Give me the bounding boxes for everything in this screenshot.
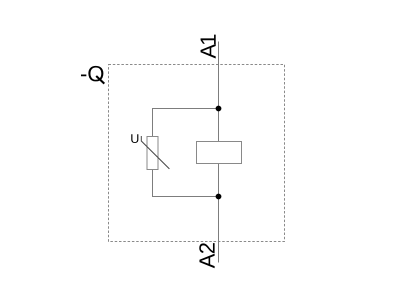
- junction node (top): [216, 106, 222, 112]
- label -Q: [81, 66, 104, 84]
- wire: coil down to bottom junction: [218, 164, 220, 197]
- wire: varistor bottom to bottom junction: [153, 170, 219, 197]
- varistor U diagonal stroke with tick: [141, 136, 169, 169]
- terminal label A1: [201, 35, 216, 59]
- label U (varistor value symbol): [131, 134, 138, 143]
- coil of contactor -Q: [197, 142, 242, 164]
- wire: terminal A1 down to top junction: [218, 42, 220, 109]
- terminal label A2: [199, 243, 214, 268]
- wire: bottom junction down to terminal A2: [218, 197, 220, 263]
- wire: top branch horizontal to varistor: [153, 109, 219, 137]
- varistor U body: [147, 137, 158, 170]
- enclosure boundary -Q (dashed outline): [109, 65, 285, 242]
- junction node (bottom): [216, 194, 222, 200]
- wire: top junction down to coil: [218, 109, 220, 142]
